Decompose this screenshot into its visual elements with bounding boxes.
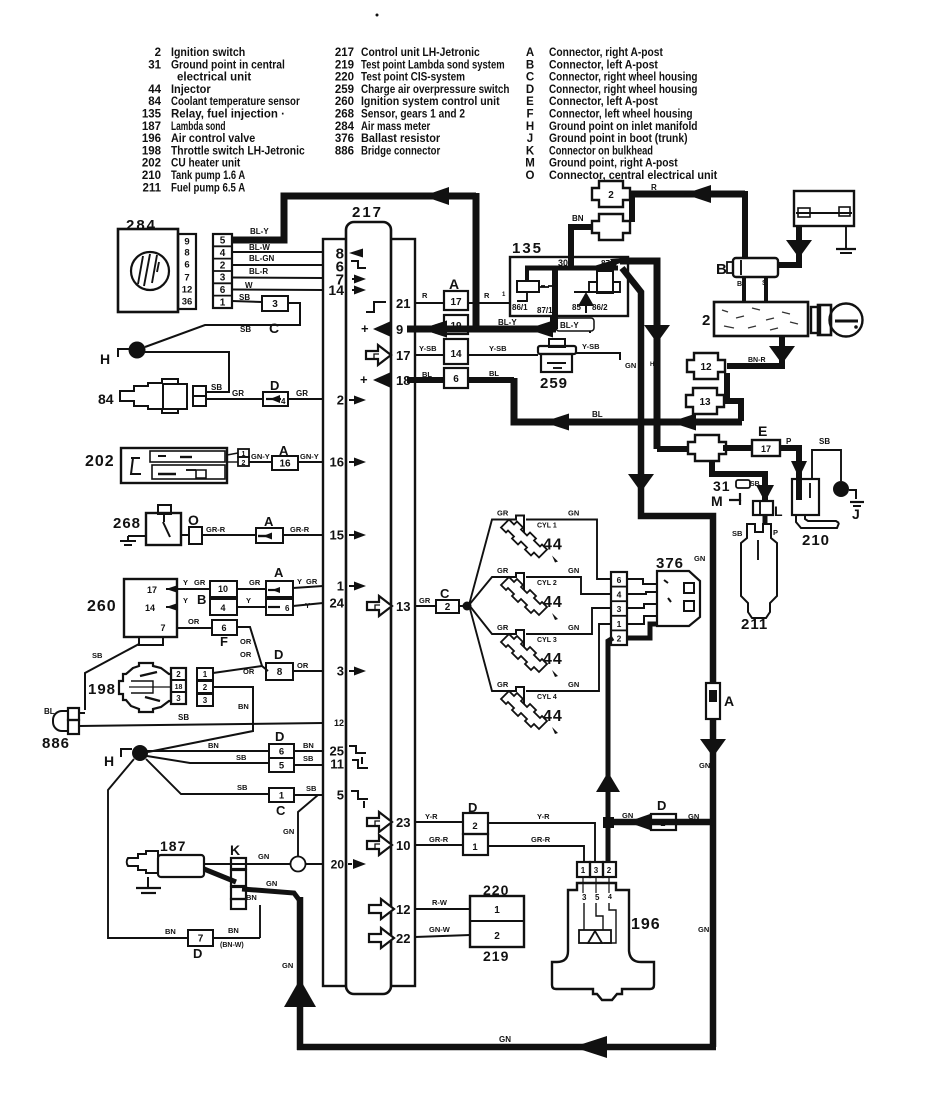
svg-text:20: 20 xyxy=(331,857,345,871)
svg-text:886: 886 xyxy=(335,145,354,157)
svg-text:259: 259 xyxy=(540,375,568,392)
svg-text:BN: BN xyxy=(208,741,219,750)
svg-text:44: 44 xyxy=(148,84,161,96)
svg-text:13: 13 xyxy=(699,397,711,408)
svg-text:2: 2 xyxy=(155,47,161,59)
svg-text:J: J xyxy=(852,506,860,522)
svg-text:6: 6 xyxy=(184,260,189,271)
svg-text:3: 3 xyxy=(220,273,226,284)
svg-text:B: B xyxy=(737,281,742,288)
svg-text:886: 886 xyxy=(42,735,70,752)
svg-text:L: L xyxy=(774,503,783,519)
svg-text:+: + xyxy=(360,372,368,387)
svg-text:BL: BL xyxy=(422,370,432,379)
svg-text:211: 211 xyxy=(142,182,161,194)
svg-text:85: 85 xyxy=(572,303,581,312)
svg-text:Y: Y xyxy=(183,578,188,587)
svg-text:13: 13 xyxy=(396,599,410,614)
svg-text:Y: Y xyxy=(297,577,302,586)
svg-text:GN: GN xyxy=(694,554,705,563)
svg-text:1: 1 xyxy=(472,842,478,853)
svg-text:2: 2 xyxy=(242,460,246,467)
svg-text:17: 17 xyxy=(147,585,157,595)
svg-text:BL-GN: BL-GN xyxy=(249,254,275,263)
svg-text:17: 17 xyxy=(761,444,771,454)
svg-text:Y: Y xyxy=(183,596,188,605)
svg-text:Ground point in central: Ground point in central xyxy=(171,59,285,71)
svg-text:Connector, right wheel housing: Connector, right wheel housing xyxy=(549,72,698,84)
svg-text:OR: OR xyxy=(240,637,252,646)
svg-text:11: 11 xyxy=(330,757,344,772)
svg-text:GN-W: GN-W xyxy=(429,925,451,934)
svg-text:GN: GN xyxy=(499,1035,511,1044)
svg-text:187: 187 xyxy=(142,121,161,133)
svg-text:BN: BN xyxy=(303,741,314,750)
svg-text:44: 44 xyxy=(543,651,563,668)
svg-text:217: 217 xyxy=(335,47,354,59)
svg-text:BL: BL xyxy=(489,369,499,378)
svg-text:1: 1 xyxy=(617,619,622,629)
svg-text:Air mass meter: Air mass meter xyxy=(361,121,431,133)
svg-text:CU heater unit: CU heater unit xyxy=(171,158,240,170)
svg-text:211: 211 xyxy=(741,616,768,633)
svg-text:3: 3 xyxy=(203,696,208,705)
svg-text:2: 2 xyxy=(607,866,612,875)
svg-text:OR: OR xyxy=(188,617,200,626)
svg-text:H: H xyxy=(526,121,534,133)
svg-text:14: 14 xyxy=(328,282,344,298)
svg-text:GN: GN xyxy=(568,566,579,575)
svg-text:2: 2 xyxy=(472,821,477,832)
svg-text:210: 210 xyxy=(142,170,161,182)
svg-text:BN: BN xyxy=(228,926,239,935)
svg-text:Y-R: Y-R xyxy=(537,812,550,821)
svg-text:7: 7 xyxy=(198,934,204,945)
svg-text:21: 21 xyxy=(396,296,410,311)
svg-text:1: 1 xyxy=(581,866,586,875)
svg-text:C: C xyxy=(269,320,279,336)
svg-text:BL-R: BL-R xyxy=(249,267,268,276)
svg-text:GR: GR xyxy=(497,566,509,575)
svg-text:BN: BN xyxy=(572,214,584,223)
svg-text:Connector, left A-post: Connector, left A-post xyxy=(549,96,658,108)
svg-text:GN: GN xyxy=(283,827,294,836)
svg-text:Air control valve: Air control valve xyxy=(171,133,255,145)
svg-text:7: 7 xyxy=(160,623,165,633)
svg-text:5: 5 xyxy=(595,893,600,902)
svg-text:Bridge connector: Bridge connector xyxy=(361,145,441,157)
svg-text:12: 12 xyxy=(334,718,344,728)
svg-text:1: 1 xyxy=(337,579,344,594)
svg-text:A: A xyxy=(724,693,734,709)
svg-text:BN: BN xyxy=(165,927,176,936)
svg-text:3: 3 xyxy=(594,866,599,875)
svg-text:B: B xyxy=(526,59,534,71)
svg-text:86/2: 86/2 xyxy=(592,303,608,312)
svg-text:Y-SB: Y-SB xyxy=(489,344,507,353)
svg-text:GR: GR xyxy=(249,578,261,587)
svg-text:10: 10 xyxy=(218,584,228,594)
svg-text:BL-W: BL-W xyxy=(249,243,270,252)
svg-text:210: 210 xyxy=(802,532,830,549)
svg-text:W: W xyxy=(245,281,253,290)
svg-text:electrical unit: electrical unit xyxy=(177,72,251,84)
svg-text:Lambda sond: Lambda sond xyxy=(171,121,226,133)
svg-text:GR: GR xyxy=(497,509,509,518)
svg-text:259: 259 xyxy=(335,84,354,96)
svg-text:31: 31 xyxy=(713,478,731,494)
svg-text:D: D xyxy=(657,798,666,813)
svg-text:CYL 2: CYL 2 xyxy=(537,580,557,587)
svg-text:GN: GN xyxy=(568,680,579,689)
svg-text:C: C xyxy=(526,72,534,84)
svg-text:Y: Y xyxy=(305,601,310,610)
svg-text:Ground point on inlet manifold: Ground point on inlet manifold xyxy=(549,121,698,133)
svg-text:3: 3 xyxy=(176,694,181,703)
svg-text:12: 12 xyxy=(396,902,410,917)
svg-text:GR-R: GR-R xyxy=(206,525,226,534)
svg-text:A: A xyxy=(264,514,274,529)
svg-text:6: 6 xyxy=(453,374,459,385)
svg-text:D: D xyxy=(193,946,202,961)
svg-text:Fuel pump 6.5 A: Fuel pump 6.5 A xyxy=(171,182,245,194)
svg-text:Ground point in boot (trunk): Ground point in boot (trunk) xyxy=(549,133,688,145)
svg-text:SB: SB xyxy=(303,754,314,763)
svg-text:376: 376 xyxy=(335,133,354,145)
svg-text:O: O xyxy=(188,512,199,528)
svg-text:2: 2 xyxy=(203,683,208,692)
svg-text:284: 284 xyxy=(126,217,157,234)
svg-text:3: 3 xyxy=(337,664,344,679)
svg-text:284: 284 xyxy=(335,121,355,133)
svg-text:CYL 1: CYL 1 xyxy=(537,523,557,530)
svg-text:GN-Y: GN-Y xyxy=(251,452,270,461)
svg-text:H: H xyxy=(104,753,114,769)
svg-text:9: 9 xyxy=(184,237,189,248)
svg-text:GN: GN xyxy=(282,961,293,970)
svg-text:1: 1 xyxy=(279,790,285,801)
svg-text:SB: SB xyxy=(236,753,247,762)
svg-text:GN: GN xyxy=(688,812,699,821)
svg-text:86/1: 86/1 xyxy=(512,303,528,312)
svg-text:R-W: R-W xyxy=(432,898,448,907)
svg-text:7: 7 xyxy=(184,273,189,284)
svg-text:SB: SB xyxy=(819,437,830,446)
svg-text:220: 220 xyxy=(335,72,354,84)
svg-text:GR-R: GR-R xyxy=(429,835,449,844)
svg-text:H: H xyxy=(100,351,110,367)
svg-text:K: K xyxy=(526,145,535,157)
svg-text:8: 8 xyxy=(277,667,283,678)
svg-text:BL: BL xyxy=(592,410,603,419)
svg-text:196: 196 xyxy=(142,133,161,145)
svg-text:GN: GN xyxy=(258,852,269,861)
svg-text:87/1: 87/1 xyxy=(537,306,553,315)
svg-text:GR: GR xyxy=(306,577,318,586)
svg-text:GN: GN xyxy=(625,361,636,370)
svg-text:Ballast resistor: Ballast resistor xyxy=(361,133,441,145)
svg-text:Connector, right A-post: Connector, right A-post xyxy=(549,47,663,59)
svg-text:1: 1 xyxy=(494,905,500,916)
svg-text:GR: GR xyxy=(296,389,308,398)
svg-text:SB: SB xyxy=(732,529,743,538)
svg-text:O: O xyxy=(526,170,535,182)
svg-text:R: R xyxy=(422,291,428,300)
svg-text:GN: GN xyxy=(266,879,277,888)
svg-text:F: F xyxy=(526,109,533,121)
svg-text:4: 4 xyxy=(220,248,226,259)
svg-text:BN: BN xyxy=(238,702,249,711)
svg-text:C: C xyxy=(440,586,450,601)
svg-text:GN: GN xyxy=(699,761,710,770)
svg-text:B: B xyxy=(716,261,727,278)
svg-text:44: 44 xyxy=(543,594,563,611)
svg-text:CYL 4: CYL 4 xyxy=(537,694,557,701)
svg-text:M: M xyxy=(711,493,723,509)
svg-text:D: D xyxy=(275,729,284,744)
svg-text:GR: GR xyxy=(497,623,509,632)
svg-text:198: 198 xyxy=(88,681,116,698)
svg-text:Test point Lambda sond system: Test point Lambda sond system xyxy=(361,59,505,71)
svg-text:2: 2 xyxy=(608,190,614,201)
svg-text:Ignition system control unit: Ignition system control unit xyxy=(361,96,500,108)
svg-text:4: 4 xyxy=(617,590,622,600)
svg-text:196: 196 xyxy=(631,916,661,933)
svg-text:15: 15 xyxy=(330,528,344,543)
svg-text:84: 84 xyxy=(148,96,161,108)
svg-text:M: M xyxy=(525,158,535,170)
svg-text:Connector, left wheel housing: Connector, left wheel housing xyxy=(549,109,693,121)
svg-text:84: 84 xyxy=(98,391,114,407)
svg-text:2: 2 xyxy=(494,931,500,942)
svg-text:GN: GN xyxy=(568,623,579,632)
svg-text:1: 1 xyxy=(203,670,208,679)
svg-text:Charge air overpressure switch: Charge air overpressure switch xyxy=(361,84,510,96)
svg-text:Sensor, gears 1 and 2: Sensor, gears 1 and 2 xyxy=(361,109,465,121)
svg-text:Connector on bulkhead: Connector on bulkhead xyxy=(549,145,653,157)
svg-text:GN: GN xyxy=(568,509,579,518)
svg-text:10: 10 xyxy=(396,838,410,853)
svg-text:260: 260 xyxy=(87,598,117,615)
svg-text:Injector: Injector xyxy=(171,84,211,96)
svg-text:Ignition switch: Ignition switch xyxy=(171,47,245,59)
svg-text:31: 31 xyxy=(148,59,161,71)
svg-text:GR-R: GR-R xyxy=(531,835,551,844)
svg-text:202: 202 xyxy=(142,158,161,170)
svg-text:44: 44 xyxy=(543,537,563,554)
svg-text:GN: GN xyxy=(622,811,633,820)
svg-text:23: 23 xyxy=(396,815,410,830)
svg-text:135: 135 xyxy=(512,240,543,257)
svg-text:2: 2 xyxy=(617,633,622,643)
svg-text:SB: SB xyxy=(178,713,189,722)
svg-text:217: 217 xyxy=(352,204,383,221)
svg-text:Control unit LH-Jetronic: Control unit LH-Jetronic xyxy=(361,47,480,59)
svg-text:OR: OR xyxy=(297,661,309,670)
svg-text:4: 4 xyxy=(220,603,225,613)
svg-text:Connector, left A-post: Connector, left A-post xyxy=(549,59,658,71)
svg-text:GR-R: GR-R xyxy=(290,525,310,534)
svg-text:BL-Y: BL-Y xyxy=(250,227,269,236)
svg-text:Throttle switch LH-Jetronic: Throttle switch LH-Jetronic xyxy=(171,145,305,157)
svg-text:+: + xyxy=(361,321,369,336)
svg-text:2: 2 xyxy=(702,312,710,329)
svg-text:H: H xyxy=(650,362,654,368)
svg-text:SB: SB xyxy=(211,383,222,392)
svg-text:Y: Y xyxy=(246,596,251,605)
svg-text:D: D xyxy=(526,84,534,96)
svg-text:268: 268 xyxy=(335,109,355,121)
svg-text:219: 219 xyxy=(335,59,354,71)
svg-text:J: J xyxy=(527,133,533,145)
svg-text:A: A xyxy=(449,276,459,292)
svg-text:5: 5 xyxy=(337,788,344,803)
svg-text:14: 14 xyxy=(145,603,155,613)
svg-text:2: 2 xyxy=(660,818,665,828)
svg-text:198: 198 xyxy=(142,145,162,157)
svg-text:219: 219 xyxy=(483,948,509,964)
svg-text:4: 4 xyxy=(608,894,612,901)
svg-text:SB: SB xyxy=(240,325,251,334)
svg-text:A: A xyxy=(274,565,284,580)
svg-text:187: 187 xyxy=(160,838,186,854)
svg-text:12: 12 xyxy=(700,362,712,373)
svg-text:GN-Y: GN-Y xyxy=(300,452,319,461)
svg-text:268: 268 xyxy=(113,515,141,532)
svg-text:6: 6 xyxy=(617,575,622,585)
svg-text:K: K xyxy=(230,842,240,858)
svg-text:5: 5 xyxy=(220,236,226,247)
svg-text:2: 2 xyxy=(445,602,451,613)
svg-text:E: E xyxy=(758,423,767,439)
svg-text:2: 2 xyxy=(176,670,181,679)
svg-text:BN: BN xyxy=(246,893,257,902)
svg-text:135: 135 xyxy=(142,109,162,121)
svg-text:CYL 3: CYL 3 xyxy=(537,637,557,644)
svg-text:GR: GR xyxy=(232,389,244,398)
svg-text:R: R xyxy=(484,291,490,300)
svg-text:17: 17 xyxy=(396,348,410,363)
svg-text:E: E xyxy=(526,96,534,108)
svg-text:Ground point, right A-post: Ground point, right A-post xyxy=(549,158,678,170)
svg-text:F: F xyxy=(220,634,228,649)
svg-text:D: D xyxy=(270,378,279,393)
svg-text:376: 376 xyxy=(656,555,684,572)
svg-text:Tank pump 1.6 A: Tank pump 1.6 A xyxy=(171,170,245,182)
svg-text:6: 6 xyxy=(221,623,226,633)
svg-text:Y-R: Y-R xyxy=(425,812,438,821)
svg-text:6: 6 xyxy=(220,285,226,296)
svg-text:4: 4 xyxy=(281,397,286,406)
svg-text:202: 202 xyxy=(85,453,115,470)
svg-text:SB: SB xyxy=(306,784,317,793)
svg-text:18: 18 xyxy=(175,684,183,691)
svg-text:Y-SB: Y-SB xyxy=(419,344,437,353)
svg-text:Coolant temperature sensor: Coolant temperature sensor xyxy=(171,96,300,108)
svg-text:9: 9 xyxy=(396,322,403,337)
svg-text:6: 6 xyxy=(279,746,284,757)
svg-text:3: 3 xyxy=(272,299,278,310)
svg-text:P: P xyxy=(786,437,792,446)
svg-text:22: 22 xyxy=(396,931,410,946)
svg-text:BL: BL xyxy=(44,707,55,716)
svg-text:(BN-W): (BN-W) xyxy=(220,942,244,949)
svg-text:6: 6 xyxy=(285,604,290,613)
svg-text:260: 260 xyxy=(335,96,354,108)
svg-text:GN: GN xyxy=(698,925,709,934)
svg-text:Y-SB: Y-SB xyxy=(582,342,600,351)
svg-text:Connector, right wheel housing: Connector, right wheel housing xyxy=(549,84,698,96)
svg-text:36: 36 xyxy=(182,297,193,308)
svg-text:BL-Y: BL-Y xyxy=(498,318,517,327)
svg-text:8: 8 xyxy=(184,248,189,259)
svg-text:44: 44 xyxy=(543,708,563,725)
svg-text:24: 24 xyxy=(330,596,345,611)
svg-text:5: 5 xyxy=(279,760,285,771)
svg-text:C: C xyxy=(276,803,286,818)
svg-text:OR: OR xyxy=(240,650,252,659)
svg-text:P: P xyxy=(773,528,778,537)
svg-text:Relay, fuel injection ·: Relay, fuel injection · xyxy=(171,109,285,121)
svg-text:16: 16 xyxy=(330,455,344,470)
svg-text:3: 3 xyxy=(617,604,622,614)
svg-text:SB: SB xyxy=(92,651,103,660)
svg-text:14: 14 xyxy=(450,349,462,360)
svg-text:A: A xyxy=(526,47,534,59)
svg-text:2: 2 xyxy=(220,260,226,271)
svg-text:1: 1 xyxy=(220,297,226,308)
svg-text:GR: GR xyxy=(419,596,431,605)
svg-text:Connector, central electrical: Connector, central electrical unit xyxy=(549,170,717,182)
svg-text:BN-R: BN-R xyxy=(748,357,766,364)
svg-text:3: 3 xyxy=(582,893,587,902)
svg-text:GR: GR xyxy=(194,578,206,587)
svg-text:2: 2 xyxy=(337,393,344,408)
svg-text:B: B xyxy=(197,592,206,607)
svg-text:16: 16 xyxy=(279,459,291,470)
svg-text:Test point CIS-system: Test point CIS-system xyxy=(361,72,465,84)
svg-text:12: 12 xyxy=(182,285,193,296)
svg-text:SB: SB xyxy=(237,783,248,792)
svg-text:D: D xyxy=(274,647,283,662)
svg-text:BL-Y: BL-Y xyxy=(560,321,579,330)
svg-text:17: 17 xyxy=(450,297,462,308)
svg-text:GR: GR xyxy=(497,680,509,689)
